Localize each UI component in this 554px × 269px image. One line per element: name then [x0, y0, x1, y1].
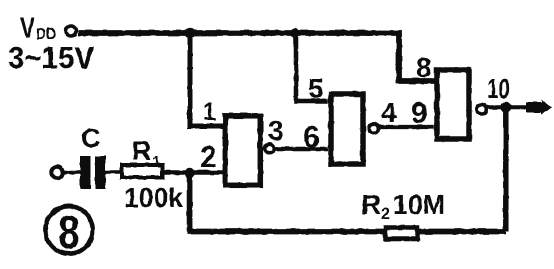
- inverter U1: [225, 116, 260, 186]
- svg-text:3~15V: 3~15V: [8, 40, 94, 75]
- svg-text:1: 1: [203, 98, 216, 126]
- svg-text:4: 4: [381, 97, 397, 128]
- wire VDD top rail: [78, 33, 435, 81]
- inverter U1 output bubble: [265, 144, 275, 154]
- svg-text:10M: 10M: [393, 189, 445, 220]
- svg-text:R: R: [361, 189, 381, 220]
- label VDD: [20, 12, 56, 45]
- wire R1 to pin2: [162, 170, 224, 175]
- terminal VDD: [66, 26, 76, 36]
- figure number circled 8: [45, 206, 92, 253]
- wire feedback bottom rail: [188, 229, 507, 235]
- label R1: [132, 136, 160, 170]
- svg-text:R: R: [132, 136, 152, 166]
- svg-text:10: 10: [487, 73, 510, 104]
- wire pin3 to pin6: [275, 147, 328, 152]
- inverter U3: [437, 70, 469, 139]
- svg-text:9: 9: [411, 97, 428, 130]
- wire pin1 drop: [190, 33, 223, 126]
- node junction top-2: [290, 28, 299, 37]
- svg-text:1: 1: [152, 153, 160, 170]
- terminal input: [51, 167, 62, 178]
- node junction top-1: [185, 28, 195, 38]
- wire pin5 drop: [296, 33, 328, 101]
- svg-text:2: 2: [381, 206, 390, 223]
- wire input to C: [63, 171, 80, 175]
- resistor R1: [122, 165, 163, 178]
- label R2 10M: [361, 189, 445, 223]
- svg-text:100k: 100k: [124, 182, 183, 213]
- capacitor C: [80, 156, 106, 189]
- inverter U3 output bubble: [477, 104, 487, 114]
- node junction R1: [184, 168, 194, 178]
- wire feedback left vertical: [187, 175, 193, 232]
- output arrow: [526, 100, 552, 116]
- inverter U2 output bubble: [369, 124, 379, 134]
- resistor R2: [386, 228, 418, 240]
- node output junction: [500, 102, 511, 113]
- wire feedback right vertical: [503, 110, 509, 232]
- inverter U2: [331, 94, 363, 164]
- svg-text:5: 5: [308, 73, 324, 104]
- svg-text:2: 2: [200, 141, 217, 174]
- svg-text:8: 8: [416, 52, 432, 83]
- wire output: [487, 105, 528, 109]
- svg-text:3: 3: [268, 115, 284, 146]
- wire pin4 to pin9: [379, 125, 434, 129]
- wire C to R1: [106, 170, 123, 174]
- svg-text:C: C: [81, 123, 101, 153]
- svg-text:8: 8: [59, 206, 80, 258]
- svg-text:6: 6: [303, 121, 320, 154]
